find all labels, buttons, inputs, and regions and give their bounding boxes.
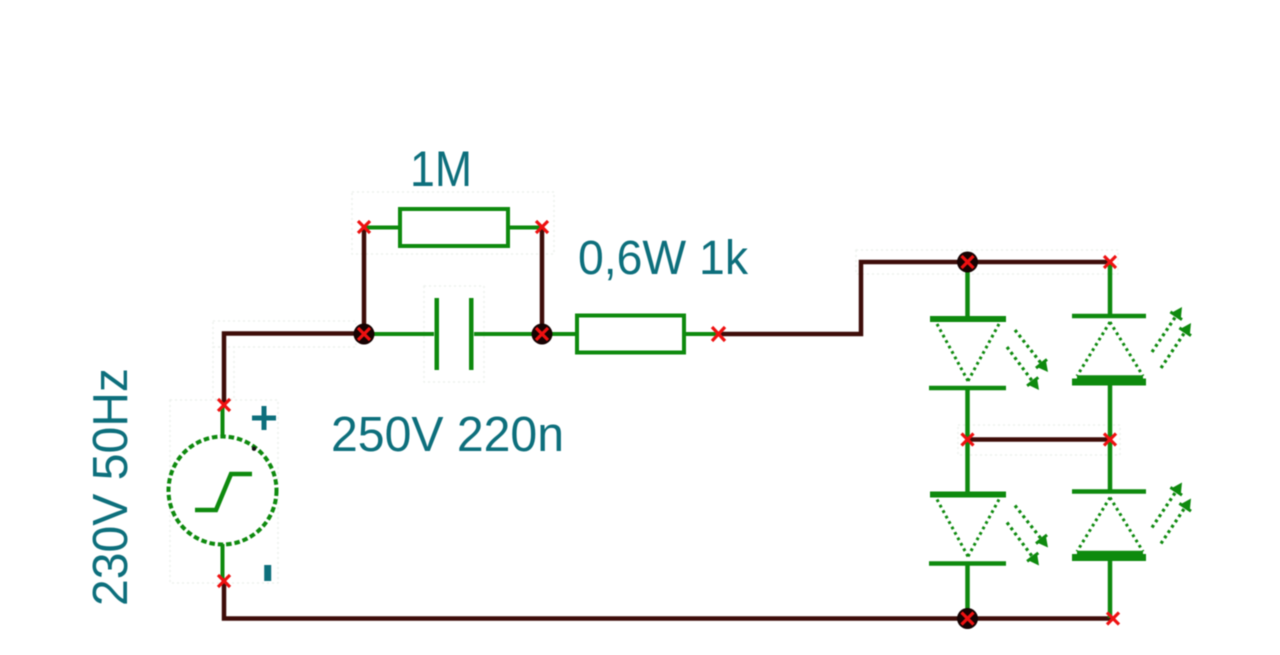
label 230V 50Hz (rotated) [84, 368, 138, 606]
LED D4 light arrow b [1161, 499, 1191, 544]
wire node B up to resistor R1 right terminal [540, 227, 545, 334]
junction node D bottom rail [957, 608, 978, 629]
pin LED D4 bottom [1108, 557, 1113, 618]
pin LED D4 top [1108, 439, 1113, 491]
capacitor C1 right plate [469, 298, 474, 370]
pin LED D3 top [965, 439, 970, 492]
pin capacitor C1 right [474, 332, 542, 336]
plus sign of source V1 [252, 406, 276, 430]
LED D1 anode bar [930, 316, 1006, 322]
LED D3 anode bar [930, 492, 1006, 498]
terminal mark bottom rail right [1107, 613, 1119, 625]
pin LED D1 top [965, 262, 970, 317]
LED D1 triangle [937, 324, 999, 381]
pin source V1 bottom [221, 544, 225, 580]
LED D3 light arrow b [1007, 523, 1039, 566]
selection frame around left horizontal wire [213, 321, 356, 347]
pin resistor R1 right [508, 226, 542, 230]
resistor R2 body (0,6W 1k) [577, 316, 684, 353]
terminal mark R2 right [712, 327, 725, 341]
voltage source V1 sine-step symbol [195, 474, 252, 510]
label 0,6W 1k [578, 232, 749, 285]
terminal mark source plus [218, 399, 230, 411]
selection frame around middle wire [958, 425, 1120, 455]
pin resistor R1 left [364, 226, 400, 230]
LED D4 anode bar [1072, 554, 1146, 561]
terminal mark middle rail left [962, 434, 974, 446]
minus sign of source V1 (rotated) [264, 565, 271, 581]
pin resistor R2 left [542, 332, 577, 336]
terminal mark R1 right [536, 221, 548, 233]
LED D2 light arrow a [1152, 307, 1182, 352]
LED D2 light arrow b [1161, 323, 1191, 368]
svg-text:1M: 1M [410, 141, 472, 197]
wire from source plus terminal up and right to node A [224, 334, 364, 406]
selection frame around resistor R1 [352, 192, 554, 254]
label 1M [410, 141, 472, 197]
wire from resistor R2 right terminal to LED top rail [717, 262, 1110, 334]
LED D1 light arrow a [1015, 330, 1048, 372]
LED D1 light arrow b [1007, 347, 1039, 390]
resistor R1 body (1M) [400, 209, 508, 246]
terminal mark R1 left [358, 221, 370, 233]
LED D2 triangle [1077, 322, 1143, 377]
junction node C top rail [957, 252, 978, 273]
LED D3 triangle [937, 500, 999, 557]
LED D3 light arrow a [1015, 506, 1048, 548]
pin resistor R2 right [684, 332, 717, 336]
svg-text:230V 50Hz: 230V 50Hz [84, 368, 138, 606]
pin source V1 top [221, 407, 225, 438]
LED D1 cathode bar [929, 386, 1006, 391]
junction node A [354, 324, 375, 345]
svg-text:250V 220n: 250V 220n [331, 408, 564, 462]
terminal mark middle rail right [1104, 434, 1116, 446]
wire node A up to resistor R1 left terminal [362, 227, 367, 334]
pin LED D2 bottom [1108, 382, 1113, 440]
LED D4 light arrow a [1152, 483, 1182, 528]
wire middle rail between LED columns [968, 437, 1111, 442]
LED D2 anode bar [1072, 379, 1146, 386]
terminal mark source minus [218, 575, 230, 587]
LED D4 cathode bar [1072, 489, 1146, 494]
LED D3 cathode bar [929, 561, 1006, 566]
selection frame around left vertical wire [213, 347, 234, 399]
voltage source V1 circle [169, 437, 277, 545]
svg-text:0,6W 1k: 0,6W 1k [578, 232, 749, 285]
terminal mark LED D2 top [1104, 256, 1116, 268]
stray dot artifact on circle rim [252, 447, 256, 451]
selection frame around source V1 [170, 400, 278, 583]
capacitor C1 left plate [435, 298, 440, 370]
pin LED D1 bottom [965, 388, 970, 440]
pin capacitor C1 left [364, 332, 434, 336]
pin LED D2 top [1108, 262, 1113, 316]
LED D2 cathode bar [1072, 314, 1146, 319]
LED D4 triangle [1077, 498, 1143, 553]
junction node B [532, 324, 553, 345]
selection frame around capacitor C1 [424, 286, 484, 382]
selection frame around top rail wire [856, 250, 1118, 274]
pin LED D3 bottom [965, 563, 970, 618]
label 250V 220n [331, 408, 564, 462]
wire from source minus terminal along bottom to LED bottom rail [224, 581, 1113, 619]
